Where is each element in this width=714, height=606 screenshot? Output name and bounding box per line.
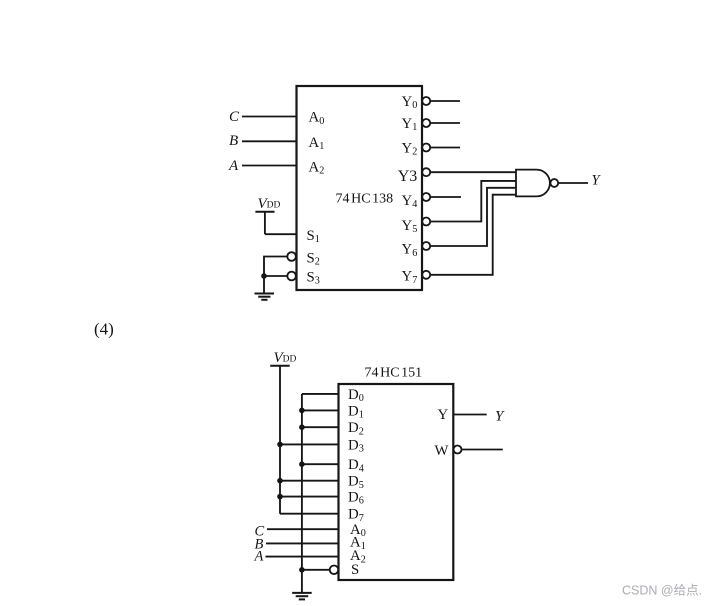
pin label A1 (74HC151) bbox=[350, 535, 366, 552]
pin label Y6 bbox=[402, 242, 418, 259]
svg-text:74HC138: 74HC138 bbox=[336, 192, 394, 207]
svg-text:A1: A1 bbox=[309, 135, 325, 152]
pin bubble Y0 bbox=[422, 97, 430, 105]
nand-gate G1 output bubble bbox=[550, 179, 558, 187]
pin label A2 (74HC151) bbox=[350, 548, 366, 565]
node A label (74HC151) bbox=[254, 549, 264, 565]
svg-text:Y5: Y5 bbox=[402, 218, 418, 235]
pin label D6 bbox=[348, 490, 364, 507]
svg-text:Y4: Y4 bbox=[402, 193, 418, 210]
wire D6 to VDD rail bbox=[280, 496, 339, 498]
wire Y2 stub bbox=[431, 147, 461, 149]
junction dot D5 bbox=[277, 478, 283, 484]
power VDD symbol (74HC138) bbox=[255, 212, 274, 235]
wire input B to A1 bbox=[242, 140, 297, 142]
pin label A0 (74HC151) bbox=[350, 522, 366, 539]
svg-text:D0: D0 bbox=[348, 387, 364, 404]
svg-text:A: A bbox=[254, 549, 264, 565]
wire Y6 to gate input 3 bbox=[431, 188, 517, 246]
node B label (74HC151) bbox=[255, 536, 264, 552]
svg-text:S1: S1 bbox=[307, 228, 320, 245]
svg-text:A: A bbox=[228, 158, 239, 174]
svg-text:Y: Y bbox=[438, 407, 449, 423]
wire Y7 to gate input 4 bbox=[431, 195, 517, 275]
pin label Y4 bbox=[402, 193, 418, 210]
node A label bbox=[228, 158, 239, 174]
node C label (74HC151) bbox=[255, 524, 265, 540]
label VDD (74HC151) bbox=[274, 350, 297, 366]
node C label bbox=[229, 109, 240, 125]
label (4) bbox=[94, 320, 114, 339]
junction dot D2 bbox=[299, 424, 305, 430]
pin label D5 bbox=[348, 474, 364, 491]
svg-text:Y3: Y3 bbox=[398, 168, 418, 185]
wire D0 to ground rail bbox=[302, 393, 339, 395]
power VDD symbol (74HC151) bbox=[270, 365, 290, 367]
watermark CSDN bbox=[622, 584, 702, 598]
wire S to ground rail bbox=[302, 569, 330, 571]
wire gate output to Y bbox=[558, 182, 588, 184]
junction dot D4 bbox=[299, 461, 305, 467]
svg-text:B: B bbox=[229, 133, 238, 149]
svg-text:W: W bbox=[435, 443, 449, 459]
pin bubble S (74HC151) bbox=[330, 566, 339, 575]
junction dot D6 bbox=[277, 494, 283, 500]
svg-text:Y: Y bbox=[495, 408, 505, 424]
svg-text:(4): (4) bbox=[94, 320, 114, 339]
pin label Y5 bbox=[402, 218, 418, 235]
ground symbol (74HC138) bbox=[255, 294, 275, 300]
ground symbol (74HC151) bbox=[292, 593, 312, 600]
wire input A to A2 bbox=[242, 165, 297, 167]
pin label Y0 bbox=[402, 94, 418, 111]
wire D4 to ground rail bbox=[302, 463, 339, 465]
pin label A0 bbox=[309, 110, 325, 127]
svg-text:S: S bbox=[351, 562, 359, 578]
pin label D2 bbox=[348, 420, 364, 437]
wire D7 to VDD rail bbox=[280, 513, 339, 515]
pin label Y inside (74HC151) bbox=[438, 407, 449, 423]
wire VDD to S1 bbox=[265, 233, 297, 235]
svg-text:Y7: Y7 bbox=[402, 269, 418, 286]
pin label Y1 bbox=[402, 116, 418, 133]
wire output W (74HC151) bbox=[462, 449, 503, 451]
svg-text:D2: D2 bbox=[348, 420, 364, 437]
svg-text:D1: D1 bbox=[348, 403, 364, 420]
pin label S3 bbox=[307, 269, 320, 286]
label 74HC138 bbox=[336, 192, 394, 207]
node Y output label (74HC151) bbox=[495, 408, 505, 424]
nand-gate G1 body bbox=[516, 170, 550, 197]
svg-text:Y2: Y2 bbox=[402, 141, 418, 158]
svg-text:D3: D3 bbox=[348, 437, 364, 454]
wire to ground bbox=[263, 276, 265, 294]
svg-text:S2: S2 bbox=[307, 250, 320, 267]
label 74HC151 bbox=[365, 366, 423, 381]
wire ground rail bbox=[301, 394, 303, 593]
pin bubble S3 bbox=[287, 272, 296, 281]
wire S2 to ground rail bbox=[264, 257, 287, 277]
wire Y1 stub bbox=[431, 122, 461, 124]
wire D5 to VDD rail bbox=[280, 480, 339, 482]
junction dot D3 bbox=[277, 442, 283, 448]
wire Y5 to gate input 2 bbox=[431, 181, 517, 222]
svg-text:C: C bbox=[229, 109, 240, 125]
pin label D0 bbox=[348, 387, 364, 404]
pin label Y7 bbox=[402, 269, 418, 286]
node Y output label (74HC138) bbox=[592, 173, 602, 189]
pin label D4 bbox=[348, 457, 364, 474]
wire S3 to ground rail bbox=[264, 275, 287, 277]
svg-text:74HC151: 74HC151 bbox=[365, 366, 423, 381]
pin bubble Y4 bbox=[422, 193, 430, 201]
svg-text:D6: D6 bbox=[348, 490, 364, 507]
wire D2 to ground rail bbox=[302, 426, 339, 428]
pin bubble Y2 bbox=[422, 144, 430, 152]
pin label Y2 bbox=[402, 141, 418, 158]
svg-text:Y: Y bbox=[592, 173, 602, 189]
pin bubble Y3 bbox=[422, 168, 430, 176]
junction dot D1 bbox=[299, 408, 305, 414]
wire VDD rail bbox=[279, 366, 281, 514]
wire input C to A0 (74HC151) bbox=[267, 528, 339, 530]
pin label D3 bbox=[348, 437, 364, 454]
pin label D1 bbox=[348, 403, 364, 420]
svg-text:A0: A0 bbox=[309, 110, 325, 127]
pin label S (74HC151) bbox=[351, 562, 359, 578]
junction dot S bbox=[299, 567, 305, 573]
svg-text:S3: S3 bbox=[307, 269, 320, 286]
pin label D7 bbox=[348, 507, 364, 524]
wire Y0 stub bbox=[431, 100, 461, 102]
pin bubble Y7 bbox=[422, 271, 430, 279]
wire input B to A1 (74HC151) bbox=[266, 542, 339, 544]
svg-text:CSDN @给点.: CSDN @给点. bbox=[622, 584, 702, 598]
pin bubble Y1 bbox=[422, 119, 430, 127]
IC U2 74HC151 body bbox=[339, 384, 454, 580]
svg-text:Y6: Y6 bbox=[402, 242, 418, 259]
junction dot S2/S3 bbox=[261, 273, 267, 279]
wire D3 to VDD rail bbox=[280, 443, 339, 445]
svg-text:Y1: Y1 bbox=[402, 116, 418, 133]
pin label A2 bbox=[309, 160, 325, 177]
pin bubble Y5 bbox=[422, 218, 430, 226]
wire output Y (74HC151) bbox=[453, 414, 486, 416]
pin label A1 bbox=[309, 135, 325, 152]
wire input A to A2 (74HC151) bbox=[266, 556, 339, 558]
IC U1 74HC138 body bbox=[297, 86, 423, 290]
pin bubble Y6 bbox=[422, 242, 430, 250]
wire input C to A0 bbox=[242, 116, 297, 118]
svg-text:D5: D5 bbox=[348, 474, 364, 491]
svg-text:A2: A2 bbox=[309, 160, 325, 177]
pin label W inside (74HC151) bbox=[435, 443, 449, 459]
pin label S1 bbox=[307, 228, 320, 245]
pin label S2 bbox=[307, 250, 320, 267]
svg-text:VDD: VDD bbox=[258, 196, 281, 212]
pin bubble W (74HC151) bbox=[454, 446, 462, 454]
label VDD (74HC138) bbox=[258, 196, 281, 212]
pin label Y3 bbox=[398, 168, 418, 185]
pin bubble S2 bbox=[287, 252, 296, 261]
node B label bbox=[229, 133, 238, 149]
wire D1 to ground rail bbox=[302, 409, 339, 411]
svg-text:Y0: Y0 bbox=[402, 94, 418, 111]
wire Y4 stub bbox=[431, 196, 462, 198]
svg-text:D4: D4 bbox=[348, 457, 364, 474]
wire Y3 to gate input 1 bbox=[431, 171, 517, 173]
svg-text:VDD: VDD bbox=[274, 350, 297, 366]
